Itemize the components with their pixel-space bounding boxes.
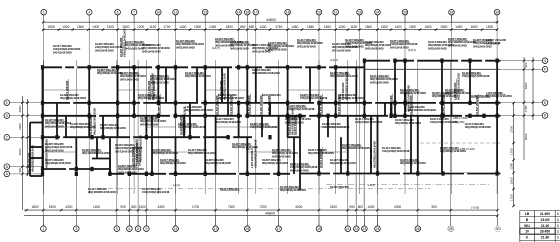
svg-text:4300: 4300 bbox=[65, 205, 72, 209]
svg-text:4300: 4300 bbox=[394, 205, 401, 209]
grid bubble 13 (bottom) bbox=[213, 216, 219, 232]
svg-text:KL237 200x450: KL237 200x450 bbox=[441, 95, 445, 115]
svg-text:28: 28 bbox=[449, 227, 453, 231]
column at 92,169 bbox=[90, 167, 93, 171]
label cluster (473,41) bbox=[473, 38, 501, 48]
right dimension line (lower) bbox=[513, 103, 515, 206]
rotated label cluster (322,168) bbox=[319, 147, 323, 168]
svg-text:#8@200(2) 3#16;3#18: #8@200(2) 3#16;3#18 bbox=[456, 73, 460, 100]
grid bubble 17 (bottom) bbox=[276, 216, 282, 232]
rotated label cluster (44,168) bbox=[41, 139, 48, 168]
label cluster (60,96) bbox=[60, 93, 86, 100]
top dimension line 1 bbox=[43, 22, 499, 29]
svg-text:1500: 1500 bbox=[409, 25, 416, 29]
beam KL x=356.3 bbox=[355, 67, 357, 103]
label cluster (262,161) bbox=[262, 158, 288, 165]
svg-text:2#16;3#18: 2#16;3#18 bbox=[486, 41, 500, 45]
rotated label cluster (122,57) bbox=[119, 28, 126, 57]
svg-text:21.900: 21.900 bbox=[540, 212, 550, 216]
svg-text:KL07J 200x400: KL07J 200x400 bbox=[262, 93, 281, 97]
column at 205.2,102.9 bbox=[204, 101, 207, 105]
label cluster (342,146) bbox=[342, 143, 370, 150]
svg-text:1800: 1800 bbox=[365, 25, 372, 29]
column at 117.6,115.8 bbox=[116, 114, 119, 118]
beam at axis F right wing bbox=[364, 68, 500, 70]
svg-text:2#14;2#16 2#25: 2#14;2#16 2#25 bbox=[448, 43, 467, 47]
column at 134.1,67.3 bbox=[133, 65, 136, 69]
schedule table text bbox=[524, 212, 559, 240]
column at 103,137.2 bbox=[101, 135, 104, 139]
beam KL x=417.8 bbox=[417, 116, 419, 174]
column at 395,60.7 bbox=[393, 59, 396, 63]
beam KL x=205.2 bbox=[204, 67, 206, 174]
svg-text:1500: 1500 bbox=[77, 25, 84, 29]
label cluster (440,149) bbox=[440, 146, 466, 153]
svg-text:2#14;2#16 2#25: 2#14;2#16 2#25 bbox=[332, 48, 351, 52]
svg-text:(L4(7): (L4(7) bbox=[265, 48, 273, 52]
svg-text:20: 20 bbox=[317, 10, 321, 14]
label cluster (486,94) bbox=[486, 91, 512, 98]
svg-text:#8@150: #8@150 bbox=[453, 120, 465, 124]
column at 152,173.8 bbox=[150, 172, 153, 176]
svg-text:18: 18 bbox=[286, 10, 290, 14]
label cluster (390,42) bbox=[390, 39, 418, 49]
beam KL x=442 bbox=[441, 61, 443, 174]
svg-text:2#14;2#16 2#25: 2#14;2#16 2#25 bbox=[120, 77, 139, 81]
svg-text:1500: 1500 bbox=[486, 25, 493, 29]
column at 328,115.8 bbox=[326, 114, 329, 118]
svg-text:1450: 1450 bbox=[455, 25, 462, 29]
svg-text:1400: 1400 bbox=[92, 25, 99, 29]
svg-text:#8@200(2) 2#14;2#16: #8@200(2) 2#14;2#16 bbox=[160, 161, 186, 165]
svg-text:1650: 1650 bbox=[307, 25, 314, 29]
svg-text:(L4(7): (L4(7) bbox=[212, 46, 220, 50]
label cluster (395,121) bbox=[395, 118, 421, 125]
svg-text:#8@200(2) 2#18;2#20: #8@200(2) 2#18;2#20 bbox=[205, 161, 231, 165]
vertical grid axis lines bbox=[43, 15, 497, 226]
svg-text:5: 5 bbox=[116, 227, 118, 231]
svg-text:850: 850 bbox=[249, 25, 255, 29]
grid bubble 30 (top) bbox=[494, 9, 500, 22]
column at 364.4,102.9 bbox=[363, 101, 366, 105]
column at 175.5,173.8 bbox=[174, 172, 177, 176]
column at 158.3,67.3 bbox=[157, 65, 160, 69]
svg-text:23.N0: 23.N0 bbox=[540, 218, 549, 222]
svg-text:17: 17 bbox=[277, 227, 281, 231]
label cluster (488,39) bbox=[486, 38, 507, 45]
label cluster (53,47) bbox=[53, 44, 81, 54]
svg-text:23: 23 bbox=[363, 227, 367, 231]
beam KL y=176.0 bbox=[30, 175, 43, 177]
beam KL x=497.1 bbox=[496, 61, 498, 174]
svg-text:KL517 250x400: KL517 250x400 bbox=[293, 115, 297, 135]
beam KL x=335.7 bbox=[335, 67, 337, 116]
grid bubble 14 (top) bbox=[236, 9, 242, 22]
svg-text:1700: 1700 bbox=[509, 148, 513, 155]
label cluster (448,40) bbox=[448, 37, 476, 47]
column at 76.3,169 bbox=[75, 167, 78, 171]
label cluster (250,125) bbox=[250, 122, 278, 129]
svg-text:#8@200(2) 2#14;2#16: #8@200(2) 2#14;2#16 bbox=[100, 126, 126, 130]
label cluster (445,91) bbox=[445, 88, 471, 95]
svg-text:#8@200(2) 3#16;3#18: #8@200(2) 3#16;3#18 bbox=[92, 108, 96, 135]
svg-text:1100: 1100 bbox=[149, 25, 156, 29]
grid bubble 10 (top) bbox=[156, 9, 162, 22]
label cluster (115,146) bbox=[115, 143, 143, 153]
column at 247.3,102.9 bbox=[246, 101, 249, 105]
svg-text:KL671 200x400: KL671 200x400 bbox=[409, 95, 413, 115]
top dimension numbers bbox=[48, 18, 494, 29]
grid bubble 24 (bottom) bbox=[375, 216, 381, 232]
rotated label cluster (232,114.8) bbox=[229, 94, 233, 115]
svg-text:2#14;2#16 2#25: 2#14;2#16 2#25 bbox=[290, 168, 309, 172]
column at 117.6,102.9 bbox=[116, 101, 119, 105]
svg-text:1450: 1450 bbox=[209, 25, 216, 29]
svg-text:1500: 1500 bbox=[194, 25, 201, 29]
column at 110,173.8 bbox=[108, 172, 111, 176]
svg-text:2#16;3#18 2#25: 2#16;3#18 2#25 bbox=[95, 48, 114, 52]
svg-text:17: 17 bbox=[254, 10, 258, 14]
column at 42.5,169 bbox=[41, 167, 44, 171]
column at 391,115.8 bbox=[389, 114, 392, 118]
beam KL x=166 bbox=[165, 67, 167, 103]
grid bubble 7 (top) bbox=[131, 9, 137, 22]
beam KL x=255.8 bbox=[255, 67, 257, 103]
label cluster (120,74) bbox=[120, 71, 146, 81]
bottom dimension line 2 bbox=[24, 215, 498, 217]
grid bubble 28 (top) bbox=[449, 9, 455, 22]
grid bubble 1 (bottom) bbox=[41, 216, 47, 232]
label cluster (285,117) bbox=[285, 114, 311, 124]
column at 417.8,173.5 bbox=[416, 171, 419, 175]
svg-text:#10@100(2) 2#18;2#20: #10@100(2) 2#18;2#20 bbox=[355, 120, 383, 124]
rotated label cluster (262,114.8) bbox=[259, 94, 263, 115]
svg-text:1200: 1200 bbox=[137, 25, 144, 29]
svg-text:6: 6 bbox=[128, 227, 130, 231]
column at 205.2,115.8 bbox=[204, 114, 207, 118]
svg-text:1700: 1700 bbox=[163, 25, 170, 29]
svg-text:22: 22 bbox=[354, 227, 358, 231]
rotated label cluster (68,100) bbox=[65, 79, 69, 100]
beam KL y=122.5 bbox=[30, 122, 43, 124]
column at 443,173.5 bbox=[441, 171, 444, 175]
label cluster (365,43) bbox=[365, 40, 391, 50]
column at 57,137.2 bbox=[55, 135, 58, 139]
structural beams (vertical) bbox=[30, 61, 497, 190]
grid bubble E (left) bbox=[4, 100, 10, 106]
svg-text:#8@100/200 2#16;3#18: #8@100/200 2#16;3#18 bbox=[88, 190, 116, 194]
svg-text:8: 8 bbox=[137, 227, 139, 231]
svg-text:KL517 250x400: KL517 250x400 bbox=[319, 148, 323, 168]
svg-text:13: 13 bbox=[203, 10, 207, 14]
grid bubble 3 (bottom) bbox=[74, 216, 80, 232]
svg-text:1500: 1500 bbox=[49, 205, 56, 209]
rotated label cluster (444,114.8) bbox=[441, 94, 445, 115]
label cluster (465,125) bbox=[465, 122, 491, 129]
label cluster (400,161) bbox=[400, 158, 426, 165]
svg-text:44800: 44800 bbox=[265, 212, 275, 216]
svg-text:LB5 h=100: LB5 h=100 bbox=[460, 147, 475, 151]
label cluster (330,74) bbox=[330, 71, 358, 78]
left dimension line bbox=[22, 96, 27, 210]
rotated label cluster (372,168) bbox=[369, 141, 376, 168]
beam KL y=137.2 bbox=[43, 136, 253, 138]
svg-text:#8@100/200 2#18;2#20: #8@100/200 2#18;2#20 bbox=[342, 146, 370, 150]
column at 405,60.7 bbox=[403, 59, 406, 63]
beam KL x=175.5 bbox=[175, 67, 177, 116]
beam KL x=110 bbox=[109, 159, 111, 174]
svg-text:#8@200(2) 2#14;2#16: #8@200(2) 2#14;2#16 bbox=[372, 141, 376, 168]
beam KL y=102.9 bbox=[43, 102, 501, 104]
svg-text:1600: 1600 bbox=[470, 25, 477, 29]
grid bubble B (left) bbox=[4, 164, 10, 170]
column at 247.3,67.3 bbox=[246, 65, 249, 69]
label cluster (205,161) bbox=[205, 158, 231, 165]
column at 484,115.8 bbox=[482, 114, 485, 118]
column at 158.3,102.9 bbox=[157, 101, 160, 105]
svg-text:24: 24 bbox=[376, 227, 380, 231]
beam KL x=89.2 bbox=[88, 67, 90, 137]
column at 364.4,115.8 bbox=[363, 114, 366, 118]
grid bubble A (left) bbox=[4, 171, 10, 177]
svg-text:L4(1): L4(1) bbox=[368, 183, 375, 187]
label cluster (280,188) bbox=[280, 185, 306, 192]
svg-text:#10@100(2) 2#16;3#18: #10@100(2) 2#16;3#18 bbox=[182, 106, 186, 135]
beam KL x=222 bbox=[221, 67, 223, 103]
svg-text:1200: 1200 bbox=[338, 25, 345, 29]
rotated label cluster (150,100) bbox=[147, 73, 154, 100]
svg-text:1400: 1400 bbox=[367, 205, 374, 209]
svg-text:2700: 2700 bbox=[509, 125, 513, 132]
column at 146.4,137.2 bbox=[145, 135, 148, 139]
grid bubble C (left) bbox=[4, 135, 10, 141]
grid bubble 17 (top) bbox=[253, 9, 259, 22]
column at 190,137.2 bbox=[188, 135, 191, 139]
svg-text:1800: 1800 bbox=[31, 205, 38, 209]
svg-text:#10@100(2) 2#14;2#16: #10@100(2) 2#14;2#16 bbox=[142, 190, 170, 194]
column at 205.2,67.3 bbox=[204, 65, 207, 69]
svg-text:#8@200(2) 2#18;2#20: #8@200(2) 2#18;2#20 bbox=[222, 73, 226, 100]
svg-text:900: 900 bbox=[120, 205, 126, 209]
svg-text:KL237 200x450: KL237 200x450 bbox=[229, 95, 233, 115]
svg-text:19: 19 bbox=[317, 227, 321, 231]
label cluster (178,125) bbox=[178, 122, 206, 129]
label cluster (297,41) bbox=[297, 38, 323, 48]
svg-text:4: 4 bbox=[88, 10, 90, 14]
column at 270,137.2 bbox=[268, 135, 271, 139]
svg-text:3000: 3000 bbox=[18, 148, 22, 155]
balcony edge dashed line bbox=[98, 188, 430, 190]
label cluster (252,71) bbox=[252, 68, 280, 75]
svg-text:2#16;3#18 2#25: 2#16;3#18 2#25 bbox=[365, 46, 384, 50]
column at 247.3,173.8 bbox=[246, 172, 249, 176]
column at 42.5,67.3 bbox=[41, 65, 44, 69]
column at 42.5,115.8 bbox=[41, 114, 44, 118]
beam KL x=310 bbox=[309, 67, 311, 103]
label cluster (82,151) bbox=[82, 148, 110, 155]
label cluster (215,40) bbox=[215, 37, 243, 47]
svg-text:4300: 4300 bbox=[295, 205, 302, 209]
svg-text:L4(1): L4(1) bbox=[246, 147, 253, 151]
label cluster (88,190) bbox=[88, 187, 116, 194]
beam KL x=377.5 bbox=[377, 116, 379, 174]
column at 300,115.8 bbox=[298, 114, 301, 118]
svg-text:KL07J 200x400: KL07J 200x400 bbox=[152, 80, 156, 100]
label cluster (308,151) bbox=[308, 148, 334, 155]
rotated label cluster (344,100) bbox=[341, 71, 348, 100]
svg-text:1: 1 bbox=[42, 227, 44, 231]
rotated label cluster (30,172) bbox=[27, 145, 34, 172]
column at 470,115.8 bbox=[468, 114, 471, 118]
svg-text:#8@100/200 2#16;3#18: #8@100/200 2#16;3#18 bbox=[185, 108, 213, 112]
label cluster (400,91) bbox=[400, 88, 426, 95]
column at 76.3,173.8 bbox=[75, 172, 78, 176]
top dimension ticks bbox=[42, 21, 498, 31]
svg-text:1550: 1550 bbox=[440, 25, 447, 29]
svg-text:30: 30 bbox=[495, 10, 499, 14]
svg-text:24: 24 bbox=[376, 10, 380, 14]
beam KL x=262 bbox=[261, 116, 263, 137]
column at 238.6,102.9 bbox=[237, 101, 240, 105]
svg-text:KL07J 200x400: KL07J 200x400 bbox=[65, 80, 69, 100]
beam KL x=134.1 bbox=[133, 67, 135, 116]
label cluster (70,125) bbox=[70, 122, 96, 129]
svg-text:KL517 250x400: KL517 250x400 bbox=[247, 95, 251, 115]
column at 335.7,115.8 bbox=[334, 114, 337, 118]
svg-text:3300: 3300 bbox=[18, 105, 22, 112]
rotated label cluster (160,114.8) bbox=[157, 94, 161, 115]
svg-text:15: 15 bbox=[245, 227, 249, 231]
beam KL x=391 bbox=[390, 103, 392, 116]
column at 405,102.9 bbox=[403, 101, 406, 105]
top dimension line 2 bbox=[43, 29, 499, 31]
schedule table bbox=[520, 211, 560, 242]
label cluster (322,125) bbox=[322, 122, 350, 129]
svg-text:#10@100(2) 3#16;3#18: #10@100(2) 3#16;3#18 bbox=[462, 74, 490, 78]
svg-text:#8@100/200 2#14;2#16: #8@100/200 2#14;2#16 bbox=[82, 151, 110, 155]
right dimension line (outer) bbox=[514, 57, 533, 206]
beam KL x=287.6 bbox=[287, 67, 289, 137]
svg-text:900: 900 bbox=[349, 205, 355, 209]
rotated label cluster (92,135) bbox=[89, 108, 96, 135]
beam KL x=470 bbox=[469, 61, 471, 103]
bottom dimension line 1 bbox=[24, 210, 498, 216]
svg-text:23: 23 bbox=[358, 10, 362, 14]
column at 117.6,67.3 bbox=[116, 65, 119, 69]
beam KL x=197 bbox=[196, 67, 198, 103]
beam KL y=158.0 bbox=[30, 157, 43, 159]
right wing light slab lines bbox=[326, 143, 500, 205]
beam KL x=294 bbox=[293, 137, 295, 174]
svg-text:KL237 200x450: KL237 200x450 bbox=[330, 185, 349, 189]
beam KL y=169.0 bbox=[43, 168, 111, 170]
svg-text:L4(1): L4(1) bbox=[173, 183, 180, 187]
column at 89.2,102.9 bbox=[88, 101, 91, 105]
rotated label cluster (322,114.8) bbox=[319, 94, 323, 115]
dimension end ticks bbox=[496, 209, 498, 217]
internal partition lines bbox=[43, 90, 348, 152]
label cluster (355,120) bbox=[355, 117, 383, 124]
rotated label cluster (340,114.8) bbox=[337, 94, 341, 115]
beam KL x=247.3 bbox=[246, 67, 248, 116]
beam KL x=328 bbox=[327, 116, 329, 137]
rotated label cluster (478,114.8) bbox=[475, 94, 479, 115]
label cluster (95,45) bbox=[95, 42, 123, 52]
beam KL x=158.3 bbox=[157, 67, 159, 103]
svg-text:1300: 1300 bbox=[62, 25, 69, 29]
label cluster (300,96) bbox=[300, 93, 328, 100]
svg-text:2#16;3#18 2#25: 2#16;3#18 2#25 bbox=[45, 124, 64, 128]
svg-text:1: 1 bbox=[557, 212, 559, 216]
grid bubble 28 (bottom) bbox=[448, 216, 454, 232]
grid bubble 23 (top) bbox=[357, 9, 363, 22]
grid bubble 22 (bottom) bbox=[354, 216, 360, 232]
svg-text:7: 7 bbox=[133, 10, 135, 14]
svg-text:2400: 2400 bbox=[330, 205, 337, 209]
svg-text:21.00: 21.00 bbox=[541, 224, 550, 228]
column at 395,102.9 bbox=[393, 101, 396, 105]
beam KL x=405 bbox=[404, 61, 406, 116]
beam KL x=395 bbox=[394, 61, 396, 116]
label cluster (45,121) bbox=[45, 118, 71, 128]
grid bubble E (right) bbox=[542, 100, 548, 106]
svg-text:(L4(7): (L4(7) bbox=[408, 48, 416, 52]
beam openings bbox=[60, 60, 485, 175]
svg-text:3: 3 bbox=[75, 227, 77, 231]
column at 278.6,173.8 bbox=[277, 172, 280, 176]
beam KL x=215.6 bbox=[215, 116, 217, 174]
beam KL x=270 bbox=[269, 103, 271, 116]
grid bubble 21 (top) bbox=[333, 9, 339, 22]
label cluster (262,96) bbox=[262, 93, 281, 97]
grid bubble D (right) bbox=[542, 113, 548, 119]
svg-text:21: 21 bbox=[346, 227, 350, 231]
label cluster (185,74) bbox=[185, 71, 211, 78]
svg-text:#10@100(2) 2#18;2#20: #10@100(2) 2#18;2#20 bbox=[250, 125, 278, 129]
svg-text:3600: 3600 bbox=[524, 82, 528, 89]
label cluster (338,96) bbox=[338, 93, 364, 100]
column at 287.6,115.8 bbox=[286, 114, 289, 118]
label cluster (152,151) bbox=[152, 148, 178, 155]
label cluster (430,120) bbox=[430, 117, 458, 124]
svg-text:10: 10 bbox=[156, 10, 160, 14]
svg-text:#8@200(2) 2#18;2#20: #8@200(2) 2#18;2#20 bbox=[280, 188, 306, 192]
svg-text:2#14;2#16 2#25: 2#14;2#16 2#25 bbox=[140, 122, 159, 126]
grid bubble 26 (bottom) bbox=[415, 216, 421, 232]
svg-text:6: 6 bbox=[117, 10, 119, 14]
column at 247.3,115.8 bbox=[246, 114, 249, 118]
svg-text:#8@200(2) 2#16;3#18: #8@200(2) 2#16;3#18 bbox=[395, 121, 421, 125]
grid bubble F (right) bbox=[542, 67, 548, 73]
label cluster (188,151) bbox=[188, 148, 216, 155]
grid bubble 9 (bottom) bbox=[144, 216, 150, 232]
column at 238.6,67.3 bbox=[237, 65, 240, 69]
beam KL x=97 bbox=[96, 137, 98, 158]
grid bubble 6 (top) bbox=[115, 9, 121, 22]
svg-text:16: 16 bbox=[245, 10, 249, 14]
svg-text:#10@100(2) 2#18;2#20: #10@100(2) 2#18;2#20 bbox=[344, 71, 348, 100]
beam KL x=146.4 bbox=[145, 116, 147, 137]
svg-text:1700: 1700 bbox=[192, 205, 199, 209]
label cluster (268,44) bbox=[268, 41, 294, 51]
column at 470,102.9 bbox=[468, 101, 471, 105]
grid bubble 5 (bottom) bbox=[114, 216, 120, 232]
column at 89.2,115.8 bbox=[88, 114, 91, 118]
beam KL x=190 bbox=[189, 103, 191, 137]
svg-text:1150: 1150 bbox=[350, 25, 357, 29]
svg-text:11: 11 bbox=[174, 227, 178, 231]
svg-text:2#18;2#20 2#25: 2#18;2#20 2#25 bbox=[118, 170, 137, 174]
